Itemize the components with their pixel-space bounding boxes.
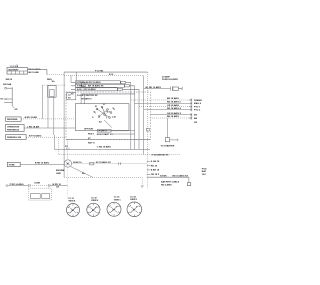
svg-text:A RD 18 AW: A RD 18 AW	[25, 116, 38, 119]
svg-text:SW 04A: SW 04A	[3, 83, 12, 86]
svg-text:X SOLENOID XX: X SOLENOID XX	[152, 155, 170, 157]
svg-text:AB: AB	[194, 117, 198, 120]
svg-text:FRAME: FRAME	[194, 99, 202, 102]
svg-text:A BK 18: A BK 18	[151, 169, 160, 172]
svg-text:POS: POS	[202, 168, 207, 170]
svg-text:S1 KEY SWITCH XX: S1 KEY SWITCH XX	[77, 95, 98, 97]
svg-text:P OFF X: P OFF X	[99, 131, 107, 133]
svg-text:PTO 1: PTO 1	[194, 107, 201, 109]
svg-text:GND: GND	[56, 173, 61, 175]
svg-text:VIEW B: VIEW B	[91, 200, 99, 202]
svg-text:12V: 12V	[202, 174, 206, 176]
svg-text:x: x	[130, 205, 131, 207]
svg-text:RD 18 AWG 2: RD 18 AWG 2	[167, 101, 182, 104]
svg-text:XX BK: XX BK	[160, 175, 167, 177]
svg-text:A 30 - OR 16 AWG: A 30 - OR 16 AWG	[77, 88, 96, 91]
svg-text:PARKING SW: PARKING SW	[7, 136, 22, 139]
svg-text:20 AMP: 20 AMP	[162, 75, 170, 78]
svg-text:RD 18: RD 18	[151, 165, 158, 167]
svg-text:BK 16 AW: BK 16 AW	[29, 71, 40, 74]
svg-text:1 5 3 0 8: 1 5 3 0 8	[10, 66, 19, 68]
svg-text:C RD 18 AWG: C RD 18 AWG	[97, 146, 111, 149]
svg-text:RUN 1: RUN 1	[88, 134, 95, 136]
svg-text:ROTARY X: ROTARY X	[82, 98, 93, 101]
svg-text:x: x	[69, 206, 70, 208]
svg-text:PRESENCE: PRESENCE	[7, 129, 20, 131]
svg-text:RD 6 AWG: RD 6 AWG	[161, 184, 172, 187]
svg-text:B BK 16: B BK 16	[73, 162, 82, 164]
svg-text:LR: LR	[56, 187, 59, 189]
svg-text:REVERSE: REVERSE	[7, 119, 18, 121]
svg-text:RD 10 AWG XX: RD 10 AWG XX	[173, 174, 189, 177]
svg-text:CC 04: CC 04	[130, 195, 137, 198]
svg-text:S MAG L - BK 18 AWG XX: S MAG L - BK 18 AWG XX	[77, 85, 104, 88]
svg-text:B P 18 AWG: B P 18 AWG	[29, 134, 42, 137]
svg-text:GN 18 AWG X: GN 18 AWG X	[167, 112, 182, 115]
svg-text:ENGINE: ENGINE	[56, 170, 65, 172]
svg-text:SW 05: SW 05	[6, 79, 13, 81]
svg-text:x: x	[116, 206, 117, 208]
svg-text:P RD 16 AWG: P RD 16 AWG	[10, 183, 24, 186]
svg-text:TO STARTER: TO STARTER	[161, 144, 175, 147]
svg-text:P 16 RD: P 16 RD	[95, 70, 104, 72]
svg-text:x: x	[89, 206, 90, 208]
svg-text:RD 18 AWG 4: RD 18 AWG 4	[167, 107, 182, 110]
svg-text:OR 18 X: OR 18 X	[151, 174, 160, 176]
svg-text:x: x	[75, 207, 76, 209]
svg-text:MV: MV	[194, 115, 198, 117]
svg-text:L RD 18 AW: L RD 18 AW	[27, 125, 40, 128]
svg-text:BATTERY: BATTERY	[9, 69, 20, 72]
svg-text:GD: GD	[194, 122, 198, 124]
svg-text:BK 18 AWG: BK 18 AWG	[167, 97, 179, 100]
svg-text:VIEW A: VIEW A	[68, 200, 76, 203]
svg-text:FUSE HOLDER: FUSE HOLDER	[162, 79, 178, 81]
svg-text:KEY X: KEY X	[88, 143, 95, 145]
svg-text:FUSE: FUSE	[9, 165, 15, 167]
svg-text:x: x	[110, 205, 111, 207]
svg-text:OFF RUN: OFF RUN	[84, 129, 93, 131]
svg-text:OPERATOR: OPERATOR	[7, 125, 20, 128]
svg-text:B RD 10: B RD 10	[53, 184, 62, 186]
svg-text:BN 18 AWG: BN 18 AWG	[167, 115, 179, 118]
svg-text:B RD 10 AWG: B RD 10 AWG	[35, 162, 49, 165]
svg-text:RUN START XX: RUN START XX	[97, 133, 114, 136]
svg-text:XX 18 AWG XX: XX 18 AWG XX	[96, 161, 112, 164]
svg-text:HTD B+ 40 RD 16 AWG: HTD B+ 40 RD 16 AWG	[77, 81, 101, 84]
svg-text:BATTERY CABLE: BATTERY CABLE	[161, 181, 180, 184]
svg-text:x: x	[95, 207, 96, 209]
svg-text:VIEW D: VIEW D	[130, 199, 138, 201]
svg-text:S GN 18: S GN 18	[151, 161, 160, 163]
svg-text:CONN: CONN	[34, 182, 40, 184]
svg-text:PTO 2: PTO 2	[194, 110, 201, 112]
svg-text:OR 18 AWG: OR 18 AWG	[167, 104, 179, 107]
svg-text:VIEW C: VIEW C	[114, 199, 122, 201]
svg-text:MAG S: MAG S	[194, 102, 202, 105]
svg-text:BAT: BAT	[202, 170, 207, 173]
svg-text:x: x	[136, 206, 137, 208]
svg-text:X1: X1	[103, 104, 105, 106]
